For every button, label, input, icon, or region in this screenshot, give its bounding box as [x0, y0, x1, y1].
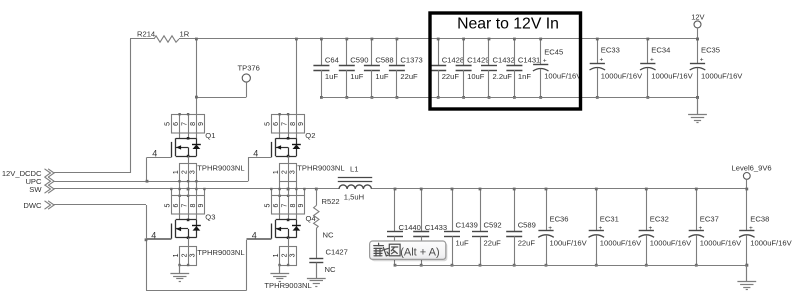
- wire R522 to C1427: [316, 229, 318, 259]
- svg-text:3: 3: [290, 170, 297, 174]
- svg-text:4: 4: [152, 149, 157, 159]
- wire DWC segment: [54, 205, 147, 291]
- svg-text:TPHR9003NL: TPHR9003NL: [264, 281, 311, 290]
- svg-text:C64: C64: [325, 56, 339, 65]
- pin box (source pins 1-3) of Q4: [280, 246, 297, 265]
- pin numbers 1 2 3 of Q3: [173, 253, 197, 257]
- pin box (source pins 1-3) of Q2: [280, 163, 297, 182]
- label NC of C1427: [325, 265, 336, 274]
- svg-text:TPHR9003NL: TPHR9003NL: [197, 248, 244, 257]
- drain leads of Q1: [180, 133, 197, 138]
- svg-text:8: 8: [190, 122, 197, 126]
- svg-text:(Alt + A): (Alt + A): [400, 246, 439, 258]
- value 1R of R214: [180, 29, 190, 38]
- svg-text:1000uF/16V: 1000uF/16V: [700, 238, 742, 247]
- svg-text:Q2: Q2: [305, 131, 315, 140]
- value 1,5uH of L1: [344, 193, 364, 202]
- capacitor EC37: [689, 188, 743, 267]
- capacitor EC32: [639, 188, 693, 267]
- junction Q2 source on SW rail: [287, 188, 290, 191]
- junction Q1 gate on UPC rail: [146, 180, 149, 183]
- svg-text:TPHR9003NL: TPHR9003NL: [297, 163, 344, 172]
- MOSFET symbol of Q3: [172, 219, 197, 239]
- svg-text:7: 7: [181, 122, 188, 126]
- MOSFET symbol of Q4: [272, 219, 297, 239]
- capacitor C1427: [309, 259, 323, 263]
- body diode of Q2: [292, 138, 301, 156]
- ground under Q3: [170, 264, 189, 282]
- source lead of Q4: [288, 238, 290, 247]
- svg-text:C1429: C1429: [467, 56, 489, 65]
- svg-text:C1433: C1433: [425, 223, 447, 232]
- label R522: [322, 197, 340, 206]
- svg-text:6: 6: [173, 122, 180, 126]
- wire SW rail stubs to Q4 drain box: [272, 189, 305, 196]
- junction SW stubs Q3: [170, 188, 205, 190]
- svg-text:C1440: C1440: [399, 223, 421, 232]
- part number label of Q1: [197, 163, 244, 172]
- svg-text:8: 8: [290, 203, 297, 207]
- pin numbers 1 2 3 of Q4: [273, 253, 297, 257]
- svg-text:+: +: [650, 57, 654, 64]
- reference label Q2: [305, 131, 315, 140]
- power 12V: [691, 12, 704, 28]
- ground under EC35: [688, 96, 707, 123]
- junction TP376 branch: [195, 96, 198, 99]
- ground under Q4: [270, 264, 289, 282]
- svg-text:8: 8: [190, 203, 197, 207]
- pin box (drain pins 5-9) of Q1: [172, 113, 205, 133]
- wire top rail (12V input rail): [179, 38, 698, 40]
- svg-text:9: 9: [198, 122, 205, 126]
- svg-text:1uF: 1uF: [325, 72, 338, 81]
- capacitor C1431: [506, 38, 540, 99]
- wire drain feed of Q1: [196, 39, 198, 114]
- svg-text:1uF: 1uF: [375, 72, 388, 81]
- junction at Q2 drain feed: [295, 38, 298, 41]
- svg-text:1: 1: [173, 253, 180, 257]
- svg-text:EC32: EC32: [650, 215, 669, 224]
- pin box (source pins 1-3) of Q1: [180, 163, 197, 182]
- wire bottom bank ground rail: [395, 265, 747, 267]
- svg-text:C1427: C1427: [326, 248, 348, 257]
- wire DWC branch to Q3 gate: [146, 239, 171, 241]
- pin numbers 1 2 3 of Q1: [173, 170, 197, 174]
- svg-text:NC: NC: [325, 265, 336, 274]
- junction at Q1 drain feed: [195, 38, 198, 41]
- wire output rail: [372, 188, 748, 190]
- svg-text:1000uF/16V: 1000uF/16V: [750, 238, 792, 247]
- pin box (drain pins 5-9) of Q4: [272, 195, 305, 215]
- label Near to 12V In: [457, 16, 559, 33]
- source lead of Q3: [188, 238, 190, 247]
- ground under EC38: [737, 264, 756, 290]
- MOSFET symbol of Q2: [272, 137, 297, 157]
- svg-text:2.2uF: 2.2uF: [493, 72, 513, 81]
- svg-text:9: 9: [298, 203, 305, 207]
- svg-text:22uF: 22uF: [518, 238, 536, 247]
- svg-text:EC35: EC35: [701, 45, 720, 54]
- svg-text:Near to 12V In: Near to 12V In: [457, 16, 559, 33]
- svg-text:EC36: EC36: [550, 215, 569, 224]
- source lead of Q2: [288, 156, 290, 163]
- pin numbers 1 2 3 of Q2: [273, 170, 297, 174]
- port UPC: [25, 177, 54, 186]
- capacitor C1439: [444, 188, 478, 267]
- svg-text:1000uF/16V: 1000uF/16V: [601, 71, 643, 80]
- port SW: [29, 185, 54, 194]
- resistor R522: [314, 189, 319, 229]
- capacitor C589: [506, 188, 536, 267]
- capacitor C1433: [413, 188, 447, 267]
- gate lead of Q1: [147, 157, 171, 159]
- wire source of Q2 to SW rail: [280, 181, 297, 189]
- drain leads of Q3: [180, 215, 197, 220]
- port 12V_DCDC: [2, 169, 54, 178]
- part number label of Q4: [264, 281, 311, 290]
- svg-text:NC: NC: [323, 231, 334, 240]
- svg-text:C1373: C1373: [400, 56, 422, 65]
- svg-text:1,5uH: 1,5uH: [344, 193, 364, 202]
- svg-text:C1428: C1428: [442, 56, 464, 65]
- capacitor EC33: [590, 38, 644, 99]
- svg-text:+: +: [699, 225, 703, 232]
- svg-text:R522: R522: [322, 197, 340, 206]
- svg-text:12V: 12V: [691, 12, 704, 21]
- inductor L1 core bars: [338, 178, 372, 182]
- capacitor C592: [472, 188, 502, 267]
- capacitor EC34: [640, 38, 694, 99]
- svg-text:TP376: TP376: [238, 64, 260, 73]
- svg-text:+: +: [548, 225, 552, 232]
- svg-text:22uF: 22uF: [400, 72, 418, 81]
- svg-text:6: 6: [273, 122, 280, 126]
- svg-text:1: 1: [173, 170, 180, 174]
- screenshot tooltip JIETU (Alt + A): [370, 241, 448, 261]
- svg-text:SW: SW: [29, 185, 42, 194]
- wire Level6_9V6 to rail: [746, 179, 748, 189]
- capacitor C588: [364, 38, 394, 99]
- body diode of Q1: [192, 138, 201, 156]
- wire left riser: [130, 39, 132, 173]
- resistor R214: [154, 36, 179, 42]
- svg-text:Q3: Q3: [205, 213, 215, 222]
- junction R522 on SW rail: [315, 188, 318, 191]
- wire DWC bottom run to Q4 gate: [146, 240, 271, 291]
- pin box (drain pins 5-9) of Q2: [272, 113, 305, 133]
- pin box (drain pins 5-9) of Q3: [172, 195, 205, 215]
- reference label Q3: [205, 213, 215, 222]
- svg-text:L1: L1: [350, 165, 358, 174]
- pin numbers 5 6 7 8 9 of Q3: [164, 203, 205, 207]
- svg-text:7: 7: [281, 203, 288, 207]
- body diode of Q3: [192, 220, 201, 238]
- svg-text:7: 7: [281, 122, 288, 126]
- svg-text:EC34: EC34: [651, 45, 670, 54]
- label L1: [350, 165, 358, 174]
- svg-text:5: 5: [264, 203, 271, 207]
- gate pin label 4 of Q1: [152, 149, 157, 159]
- svg-text:4: 4: [252, 230, 257, 240]
- capacitor EC38: [739, 188, 793, 267]
- svg-text:C592: C592: [484, 221, 502, 230]
- part number label of Q2: [297, 163, 344, 172]
- capacitor C1440: [387, 188, 421, 267]
- svg-text:22uF: 22uF: [484, 238, 502, 247]
- junction Q1 source on SW rail: [187, 188, 190, 191]
- svg-text:C588: C588: [375, 56, 393, 65]
- svg-text:4: 4: [253, 149, 258, 159]
- svg-text:1R: 1R: [180, 29, 190, 38]
- svg-text:EC37: EC37: [700, 215, 719, 224]
- svg-text:C1432: C1432: [493, 56, 515, 65]
- svg-text:100uF/16V: 100uF/16V: [544, 72, 582, 81]
- label C1427: [326, 248, 348, 257]
- wire drain feed of Q2: [296, 39, 298, 114]
- svg-text:1000uF/16V: 1000uF/16V: [701, 71, 743, 80]
- svg-text:1uF: 1uF: [350, 72, 363, 81]
- svg-text:5: 5: [264, 122, 271, 126]
- svg-text:10uF: 10uF: [467, 72, 485, 81]
- drain leads of Q4: [280, 215, 297, 220]
- junction 12V on rail: [696, 38, 699, 41]
- gate pin label 4 of Q2: [253, 149, 258, 159]
- svg-text:9: 9: [198, 203, 205, 207]
- test point TP376: [238, 64, 260, 83]
- svg-text:6: 6: [173, 203, 180, 207]
- capacitor C1428: [430, 38, 464, 99]
- svg-text:+: +: [700, 57, 704, 64]
- capacitor EC45: [533, 38, 582, 99]
- svg-text:3: 3: [290, 253, 297, 257]
- svg-text:9: 9: [298, 122, 305, 126]
- svg-text:TPHR9003NL: TPHR9003NL: [197, 163, 244, 172]
- reference label Q1: [205, 131, 215, 140]
- pin numbers 5 6 7 8 9 of Q4: [264, 203, 305, 207]
- MOSFET symbol of Q1: [172, 137, 197, 157]
- capacitor EC35: [690, 38, 744, 99]
- svg-text:2: 2: [181, 253, 188, 257]
- body diode of Q4: [292, 220, 301, 238]
- wire SW rail left segment: [54, 188, 339, 190]
- svg-text:C589: C589: [518, 221, 536, 230]
- svg-text:EC33: EC33: [601, 45, 620, 54]
- svg-text:2: 2: [281, 170, 288, 174]
- wire top rail left of R214: [130, 38, 154, 40]
- capacitor EC36: [538, 188, 587, 267]
- svg-text:R214: R214: [137, 29, 155, 38]
- svg-text:1000uF/16V: 1000uF/16V: [650, 238, 692, 247]
- wire source of Q1 to SW rail: [180, 181, 197, 189]
- part number label of Q3: [197, 248, 244, 257]
- wire gate drop of Q1 to UPC: [146, 157, 148, 181]
- svg-text:2: 2: [181, 170, 188, 174]
- capacitor EC31: [589, 188, 643, 267]
- port DWC: [23, 201, 54, 210]
- svg-text:2: 2: [281, 253, 288, 257]
- svg-text:1000uF/16V: 1000uF/16V: [651, 71, 693, 80]
- capacitor C64: [313, 38, 338, 99]
- inductor L1 coils: [339, 185, 371, 189]
- svg-text:+: +: [600, 57, 604, 64]
- svg-text:C1439: C1439: [456, 221, 478, 230]
- wire gate drop of Q2 to UPC rail end: [248, 157, 250, 181]
- pin box (source pins 1-3) of Q3: [180, 246, 197, 265]
- gate pin label 4 of Q4: [252, 230, 257, 240]
- svg-text:+: +: [749, 225, 753, 232]
- gate lead of Q3: [146, 238, 171, 240]
- svg-text:EC45: EC45: [544, 48, 563, 57]
- wire TP376 to Q1 drain: [196, 82, 246, 97]
- svg-text:+: +: [543, 58, 547, 65]
- junction SW stubs Q4: [270, 188, 306, 190]
- drain leads of Q2: [280, 133, 297, 138]
- gate lead of Q4: [247, 238, 272, 240]
- svg-text:3: 3: [190, 253, 197, 257]
- capacitor C1429: [456, 38, 490, 99]
- ground under C1427: [307, 263, 326, 287]
- svg-text:5: 5: [164, 122, 171, 126]
- svg-text:8: 8: [290, 122, 297, 126]
- svg-text:7: 7: [181, 203, 188, 207]
- wire 12V_DCDC to left riser: [54, 172, 130, 174]
- svg-text:1000uF/16V: 1000uF/16V: [600, 238, 642, 247]
- svg-text:Level6_9V6: Level6_9V6: [732, 164, 772, 173]
- svg-text:22uF: 22uF: [442, 72, 460, 81]
- wire UPC rail: [54, 181, 248, 183]
- svg-text:Q1: Q1: [205, 131, 215, 140]
- node Level6_9V6: [732, 164, 772, 180]
- svg-text:1uF: 1uF: [456, 238, 469, 247]
- pin numbers 5 6 7 8 9 of Q2: [264, 122, 305, 126]
- wire SW rail stubs to Q3 drain box: [172, 189, 205, 196]
- gate lead of Q2: [248, 157, 271, 159]
- junction Q1 source pins on UPC rail: [178, 180, 197, 182]
- pin numbers 5 6 7 8 9 of Q1: [164, 122, 205, 126]
- label NC of R522: [323, 231, 334, 240]
- wire top bank ground rail: [321, 97, 697, 99]
- gate pin label 4 of Q3: [151, 230, 156, 240]
- svg-text:EC38: EC38: [750, 215, 769, 224]
- svg-text:1nF: 1nF: [518, 72, 531, 81]
- capacitor C590: [339, 38, 369, 99]
- svg-text:EC31: EC31: [600, 215, 619, 224]
- svg-text:C1431: C1431: [518, 56, 540, 65]
- svg-text:1: 1: [273, 253, 280, 257]
- svg-text:+: +: [599, 225, 603, 232]
- svg-text:3: 3: [190, 170, 197, 174]
- capacitor C1432: [481, 38, 515, 99]
- svg-text:+: +: [649, 225, 653, 232]
- svg-text:4: 4: [151, 230, 156, 240]
- reference label Q4: [306, 214, 316, 223]
- wire 12V to rail: [697, 28, 699, 39]
- highlight box Near to 12V In: [430, 13, 581, 109]
- source lead of Q1: [188, 156, 190, 163]
- junction DWC gate node: [145, 238, 148, 241]
- svg-text:1: 1: [273, 170, 280, 174]
- svg-text:C590: C590: [350, 56, 368, 65]
- svg-text:5: 5: [164, 203, 171, 207]
- capacitor C1373: [389, 38, 423, 99]
- svg-text:DWC: DWC: [23, 201, 42, 210]
- label R214: [137, 29, 155, 38]
- svg-text:100uF/16V: 100uF/16V: [550, 238, 588, 247]
- svg-text:6: 6: [273, 203, 280, 207]
